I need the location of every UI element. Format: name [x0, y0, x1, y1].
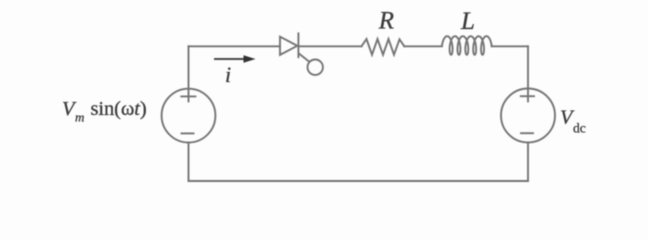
svg-text:L: L [460, 8, 475, 35]
svg-text:i: i [225, 62, 231, 87]
svg-text:dc: dc [573, 121, 586, 136]
svg-text:R: R [378, 8, 394, 35]
svg-text:sin(ωt): sin(ωt) [91, 98, 147, 120]
svg-text:m: m [75, 110, 84, 125]
